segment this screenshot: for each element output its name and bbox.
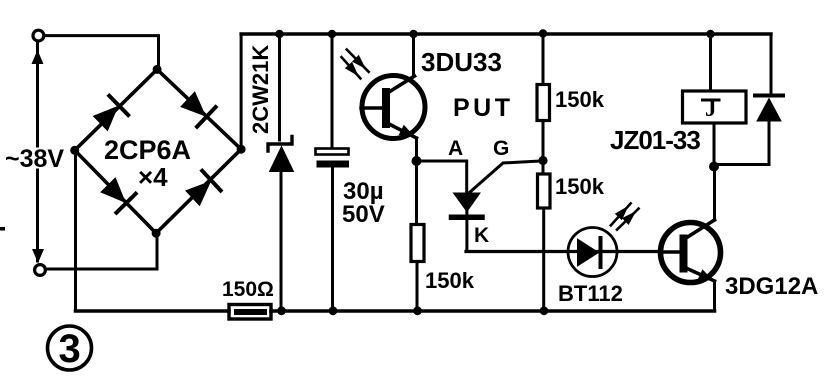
node resistor R1 bottom xyxy=(413,306,422,315)
wire emitter down to bottom rail xyxy=(713,281,716,311)
node divider bottom xyxy=(540,306,549,315)
node capacitor bottom xyxy=(329,306,338,315)
wire relay branch from rail xyxy=(709,34,712,91)
diode D2 bridge top-right arm xyxy=(179,90,216,127)
svg-text:2CW21K: 2CW21K xyxy=(248,45,273,134)
svg-text:3DU33: 3DU33 xyxy=(421,47,502,77)
svg-text:3DG12A: 3DG12A xyxy=(725,273,818,300)
wire flyback diode branch xyxy=(770,34,773,94)
AC terminal bottom xyxy=(35,265,46,276)
node bridge left vertex xyxy=(70,146,79,155)
resistor R2 150k upper divider xyxy=(537,85,550,175)
resistor R1 150k (emitter to ground) xyxy=(411,225,424,312)
PUT V1 xyxy=(452,193,483,252)
node bridge right vertex xyxy=(237,145,246,154)
capacitor C1 30u/50V xyxy=(316,149,350,312)
wire zener branch top xyxy=(278,34,281,140)
diode D3 bridge bottom-left arm xyxy=(99,176,136,213)
label J xyxy=(703,96,720,121)
wire bottom rail right of 150ohm xyxy=(271,309,715,313)
svg-text:×4: ×4 xyxy=(138,162,168,192)
zener diode 2CW21K xyxy=(268,137,294,312)
wire PUT cathode to base line xyxy=(466,250,660,253)
phototransistor 3DU33 xyxy=(361,76,425,139)
wire phototransistor emitter down xyxy=(415,138,418,224)
svg-text:G: G xyxy=(493,137,509,160)
node gate junction xyxy=(538,156,547,165)
node zener bottom xyxy=(277,306,286,315)
svg-text:50V: 50V xyxy=(342,201,385,228)
wire bottom rail left of 150ohm xyxy=(76,309,230,313)
bridge arm top-left xyxy=(75,69,157,150)
flyback diode D5 xyxy=(714,96,783,165)
AC source line upper segment with up arrow xyxy=(32,42,44,146)
svg-text:JZ01-33: JZ01-33 xyxy=(610,125,700,155)
LED BT112 xyxy=(568,228,617,277)
node rail zener top xyxy=(275,30,283,38)
AC terminal top xyxy=(33,30,44,41)
svg-text:3: 3 xyxy=(59,327,81,371)
wire bottom AC to bridge bottom vertex xyxy=(47,233,158,269)
node bridge top vertex xyxy=(153,65,162,74)
bridge arm top-right xyxy=(157,69,241,149)
svg-text:150k: 150k xyxy=(555,174,605,199)
svg-text:J: J xyxy=(705,96,717,121)
stray scan mark xyxy=(0,227,5,231)
diode D4 bridge bottom-right arm xyxy=(184,171,221,208)
node rail relay top xyxy=(706,30,714,38)
wire PUT anode xyxy=(417,161,467,193)
node relay bottom junction xyxy=(709,162,719,172)
node bridge bottom vertex xyxy=(152,229,161,238)
svg-text:BT112: BT112 xyxy=(558,281,623,306)
svg-text:K: K xyxy=(474,224,489,247)
resistor R3 150k lower divider xyxy=(538,174,551,311)
node rail divider top xyxy=(539,29,547,37)
node emitter junction xyxy=(412,156,422,166)
bridge arm bottom-left xyxy=(75,150,156,233)
wire DC minus: left vertex down to bottom rail xyxy=(74,152,77,311)
wire capacitor branch top xyxy=(331,34,334,148)
resistor R4 150ohm xyxy=(229,305,271,320)
wire divider branch from rail xyxy=(542,34,545,84)
relay coil J xyxy=(683,91,747,167)
node rail capacitor top xyxy=(328,30,336,38)
wire top AC to bridge top vertex xyxy=(45,36,159,70)
diode D1 bridge top-left arm xyxy=(91,96,128,133)
wire collector up to relay junction xyxy=(713,167,716,221)
svg-text:A: A xyxy=(448,137,463,160)
wire top rail xyxy=(241,32,771,35)
svg-text:PUT: PUT xyxy=(453,94,514,122)
bridge arm bottom-right xyxy=(156,149,241,233)
wire phototransistor collector to rail xyxy=(412,34,415,76)
svg-text:150k: 150k xyxy=(425,268,475,293)
svg-text:2CP6A: 2CP6A xyxy=(104,135,191,165)
AC source line lower segment with down arrow xyxy=(32,170,44,263)
wire DC plus: right vertex up to top rail xyxy=(240,34,243,147)
svg-text:~38V: ~38V xyxy=(5,145,64,173)
transistor Q1 3DG12A xyxy=(660,220,721,283)
wire PUT gate xyxy=(470,161,541,192)
figure number 3 xyxy=(48,326,92,371)
svg-text:150Ω: 150Ω xyxy=(222,278,274,301)
node rail collector top xyxy=(409,30,417,38)
svg-text:150k: 150k xyxy=(555,87,605,112)
light arrows out of BT112 xyxy=(611,203,639,229)
light arrows into 3DU33 xyxy=(342,50,369,79)
